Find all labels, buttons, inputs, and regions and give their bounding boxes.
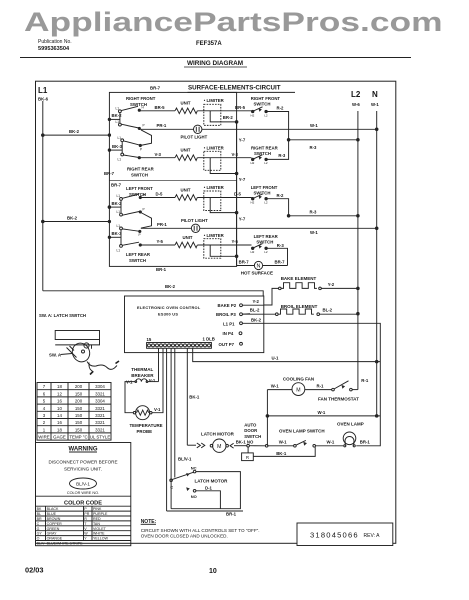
svg-text:BL/V: BL/V	[37, 542, 45, 546]
svg-text:SWITCH: SWITCH	[244, 434, 261, 439]
latch motor inner box	[196, 491, 221, 509]
svg-text:SWITCH: SWITCH	[254, 191, 271, 196]
wire BK-2 upper	[43, 134, 110, 136]
svg-text:18: 18	[57, 384, 62, 389]
wire BL/V-1	[178, 456, 192, 461]
thermostat fan	[332, 388, 335, 391]
pin OUT P7	[219, 342, 235, 347]
svg-text:D-1: D-1	[205, 485, 213, 490]
svg-text:HOT SURFACE: HOT SURFACE	[241, 271, 273, 276]
svg-text:P: P	[143, 208, 145, 212]
svg-text:WHITE: WHITE	[93, 532, 105, 536]
svg-text:BK-2: BK-2	[251, 318, 262, 323]
svg-text:BLUE/WHITE STRIPE: BLUE/WHITE STRIPE	[47, 542, 84, 546]
switch auto door	[244, 423, 261, 439]
svg-text:DOOR: DOOR	[244, 428, 258, 433]
svg-text:P: P	[143, 123, 145, 127]
svg-text:TAN: TAN	[93, 522, 100, 526]
svg-text:L2: L2	[264, 113, 268, 117]
svg-text:COLOR WIRE NO.: COLOR WIRE NO.	[67, 491, 99, 495]
svg-text:RIGHT FRONT: RIGHT FRONT	[251, 96, 281, 101]
pin BAKE P2	[218, 303, 237, 308]
svg-text:BR-7: BR-7	[150, 86, 161, 91]
svg-text:R-2: R-2	[277, 193, 285, 198]
svg-text:• LIMITER: • LIMITER	[204, 98, 225, 103]
svg-text:SERVICING UNIT.: SERVICING UNIT.	[64, 467, 102, 472]
svg-text:PINK: PINK	[93, 507, 102, 511]
svg-text:N: N	[372, 90, 378, 99]
resistor UNIT 1	[181, 101, 191, 106]
wire drop to thermal breaker	[158, 348, 160, 381]
svg-text:L1: L1	[117, 224, 121, 228]
svg-text:3321: 3321	[95, 427, 105, 432]
svg-text:TEMP °C: TEMP °C	[69, 435, 87, 440]
svg-text:3321: 3321	[95, 391, 105, 396]
svg-text:BR-7: BR-7	[104, 171, 115, 176]
contact NC auto door	[247, 447, 249, 453]
resistor UNIT 2	[181, 148, 191, 153]
wire limiter4 out	[210, 245, 236, 256]
wire gauge table	[37, 383, 111, 441]
svg-text:N: N	[257, 264, 261, 270]
wire W-1 mid oven	[267, 415, 380, 417]
node N	[371, 90, 379, 107]
pin BROIL P3	[216, 312, 236, 317]
svg-text:L1: L1	[117, 249, 121, 253]
svg-text:M: M	[217, 444, 221, 450]
svg-text:W-1: W-1	[310, 230, 318, 235]
svg-text:150: 150	[75, 427, 83, 432]
svg-text:BK-2: BK-2	[112, 201, 123, 206]
svg-text:PILOT LIGHT: PILOT LIGHT	[181, 218, 208, 223]
svg-text:L2: L2	[264, 201, 268, 205]
heater broil element	[281, 304, 318, 309]
resistor UNIT 3	[181, 187, 191, 192]
svg-text:C: C	[37, 522, 40, 526]
svg-text:W-1: W-1	[318, 410, 326, 415]
svg-text:L1: L1	[117, 194, 121, 198]
svg-text:200: 200	[75, 399, 83, 404]
svg-text:M: M	[296, 387, 300, 393]
svg-text:BR-7: BR-7	[111, 183, 122, 188]
svg-text:BLACK: BLACK	[47, 507, 59, 511]
svg-text:TEMPERATURE: TEMPERATURE	[130, 423, 163, 428]
wire R-3 lower	[289, 215, 358, 217]
svg-text:1 DLB: 1 DLB	[203, 337, 215, 342]
svg-text:L2: L2	[264, 250, 268, 254]
svg-text:GREEN: GREEN	[47, 527, 60, 531]
svg-text:BR-1: BR-1	[360, 440, 371, 445]
svg-text:R-2: R-2	[277, 106, 285, 111]
part number box	[297, 523, 393, 546]
latch switch assembly drawing	[39, 313, 86, 318]
svg-text:BAKE ELEMENT: BAKE ELEMENT	[281, 276, 317, 281]
svg-text:R-3: R-3	[310, 145, 318, 150]
svg-text:BROWN: BROWN	[47, 517, 61, 521]
svg-text:R-3: R-3	[310, 210, 318, 215]
svg-text:UNIT: UNIT	[183, 235, 193, 240]
svg-text:150: 150	[75, 413, 83, 418]
svg-text:BK-1: BK-1	[189, 395, 200, 400]
footer date	[25, 566, 44, 575]
svg-text:SWITCH: SWITCH	[256, 239, 273, 244]
svg-text:14: 14	[57, 413, 62, 418]
svg-text:ELECTRONIC OVEN CONTROL: ELECTRONIC OVEN CONTROL	[137, 305, 201, 310]
svg-text:LEFT REAR: LEFT REAR	[254, 234, 279, 239]
svg-text:ORANGE: ORANGE	[47, 537, 63, 541]
svg-text:UNIT: UNIT	[181, 148, 191, 153]
lamp hot surface indicator	[237, 265, 255, 267]
svg-text:P: P	[139, 233, 141, 237]
svg-text:LEFT FRONT: LEFT FRONT	[126, 186, 153, 191]
wire V-3	[139, 157, 175, 159]
svg-text:W-1: W-1	[271, 384, 279, 389]
svg-text:3321: 3321	[95, 420, 105, 425]
svg-text:200: 200	[75, 384, 83, 389]
svg-text:10: 10	[209, 568, 217, 575]
svg-text:IN P4: IN P4	[223, 331, 234, 336]
svg-text:Y-7: Y-7	[239, 217, 246, 222]
svg-text:LATCH MOTOR: LATCH MOTOR	[201, 431, 235, 436]
svg-text:L1: L1	[116, 107, 120, 111]
svg-text:VIOLET: VIOLET	[93, 527, 107, 531]
svg-text:Y-2: Y-2	[328, 282, 335, 287]
svg-text:AppliancePartsPros.com: AppliancePartsPros.com	[24, 7, 443, 37]
svg-text:• LIMITER: • LIMITER	[204, 145, 225, 150]
svg-text:BK-3: BK-3	[112, 144, 123, 149]
svg-text:R-1: R-1	[361, 378, 369, 383]
title WIRING DIAGRAM	[187, 60, 243, 67]
wire P zigzag bank2	[122, 212, 139, 216]
svg-text:3304: 3304	[95, 384, 105, 389]
svg-text:12: 12	[57, 391, 62, 396]
lamp pilot light 1	[194, 125, 202, 133]
connector strip P1-P15	[147, 337, 215, 343]
wire BK-2 bottom bus	[43, 291, 263, 296]
svg-text:SURFACE-ELEMENTS-CIRCUIT: SURFACE-ELEMENTS-CIRCUIT	[188, 85, 281, 92]
wire PR-1 pilot feed	[121, 124, 138, 128]
svg-text:BROIL P3: BROIL P3	[216, 312, 236, 317]
switch latch motor lower	[191, 465, 197, 470]
limiter 4	[204, 233, 225, 238]
wire R-3 upper	[289, 139, 358, 141]
switch SW right-front (right unit)	[251, 96, 281, 107]
svg-text:7: 7	[43, 384, 46, 389]
svg-text:LEFT FRONT: LEFT FRONT	[251, 185, 278, 190]
svg-text:Y-2: Y-2	[253, 299, 260, 304]
wire BR-2	[210, 111, 236, 122]
svg-text:W-1: W-1	[279, 440, 287, 445]
svg-text:10: 10	[57, 406, 62, 411]
svg-text:R: R	[84, 517, 87, 521]
svg-text:W-1: W-1	[310, 123, 318, 128]
lamp oven lamp	[337, 422, 364, 427]
svg-text:Y-7: Y-7	[239, 177, 246, 182]
bus L2	[357, 111, 359, 390]
svg-text:Publication No.: Publication No.	[38, 39, 72, 45]
svg-text:BK-6: BK-6	[38, 97, 49, 102]
svg-text:L1: L1	[118, 136, 122, 140]
switch SW right-rear (right unit)	[251, 146, 279, 157]
svg-text:PR-1: PR-1	[157, 222, 167, 227]
switch SW right-front (left bank)	[126, 96, 156, 107]
svg-text:WIRING DIAGRAM: WIRING DIAGRAM	[187, 60, 243, 67]
svg-text:BR-2: BR-2	[223, 115, 234, 120]
svg-text:C: C	[170, 485, 173, 490]
surface switch box	[109, 92, 236, 266]
svg-text:3: 3	[43, 413, 46, 418]
svg-text:16: 16	[57, 420, 62, 425]
logo AppliancePartsPros.com	[24, 7, 443, 37]
title SURFACE-ELEMENTS-CIRCUIT	[188, 85, 281, 92]
svg-text:H2: H2	[251, 201, 255, 205]
svg-text:3304: 3304	[95, 399, 105, 404]
svg-text:BK-2: BK-2	[67, 215, 78, 220]
svg-text:DISCONNECT POWER BEFORE: DISCONNECT POWER BEFORE	[48, 460, 117, 465]
wire BR-5	[139, 110, 175, 112]
switch oven lamp	[279, 428, 325, 433]
wire W-1 pilot1 to N	[202, 128, 377, 130]
svg-text:BAKE P2: BAKE P2	[218, 303, 237, 308]
heater bake element	[281, 276, 317, 281]
switch SW left-rear (right unit)	[254, 234, 279, 245]
svg-text:V-3: V-3	[155, 152, 162, 157]
svg-text:6: 6	[43, 391, 46, 396]
svg-text:4: 4	[43, 406, 46, 411]
wire L1-P1 BK-2 feed to oven circuit	[242, 323, 380, 446]
svg-text:P: P	[84, 507, 87, 511]
header rule	[20, 57, 411, 59]
svg-text:PR: PR	[84, 512, 89, 516]
svg-text:O: O	[37, 537, 40, 541]
pin L1 P1	[223, 322, 235, 327]
svg-text:BR-5: BR-5	[235, 105, 246, 110]
svg-text:SWITCH: SWITCH	[129, 258, 146, 263]
svg-text:BL-2: BL-2	[250, 308, 260, 313]
wire D-5	[140, 197, 175, 199]
svg-text:UNIT: UNIT	[181, 187, 191, 192]
thermal breaker	[131, 367, 154, 378]
warning box	[36, 443, 131, 546]
svg-text:02/03: 02/03	[25, 566, 44, 575]
model number	[196, 41, 222, 47]
switch SW right-rear (left bank)	[127, 166, 155, 177]
latch motor outer box	[171, 472, 240, 509]
svg-text:V: V	[84, 527, 87, 531]
svg-text:SWITCH: SWITCH	[130, 102, 147, 107]
svg-text:YELLOW: YELLOW	[93, 537, 109, 541]
svg-text:L1: L1	[117, 210, 121, 214]
svg-text:BK-1 NO: BK-1 NO	[236, 440, 254, 445]
node L1	[38, 86, 49, 102]
svg-text:COLOR CODE: COLOR CODE	[64, 501, 102, 507]
svg-text:GRAY: GRAY	[47, 532, 58, 536]
bus N	[376, 111, 378, 416]
wire Y-2 to control	[264, 288, 279, 305]
svg-text:NO: NO	[191, 494, 197, 499]
svg-text:Y-5: Y-5	[157, 239, 164, 244]
svg-text:G: G	[37, 527, 40, 531]
footer page number	[209, 568, 217, 575]
svg-text:H2: H2	[251, 161, 255, 165]
svg-text:BR-5: BR-5	[155, 105, 166, 110]
wire limiter2 out	[210, 158, 236, 174]
svg-text:R-1: R-1	[317, 384, 325, 389]
svg-text:W-6: W-6	[352, 102, 360, 107]
svg-text:SW. A: LATCH SWITCH: SW. A: LATCH SWITCH	[39, 313, 86, 318]
svg-text:LATCH MOTOR: LATCH MOTOR	[195, 478, 229, 483]
color code table	[64, 501, 102, 507]
switch SW left-rear (left bank)	[126, 252, 151, 263]
svg-text:GAGE: GAGE	[53, 435, 66, 440]
svg-text:BK-2: BK-2	[165, 284, 176, 289]
svg-text:BK-2: BK-2	[69, 129, 80, 134]
svg-text:OVEN LAMP: OVEN LAMP	[337, 422, 364, 427]
svg-text:L1: L1	[116, 120, 120, 124]
svg-text:L1 P1: L1 P1	[223, 322, 235, 327]
svg-text:RIGHT FRONT: RIGHT FRONT	[126, 96, 156, 101]
svg-text:OVEN LAMP SWITCH: OVEN LAMP SWITCH	[279, 428, 325, 433]
svg-text:15: 15	[147, 337, 152, 342]
svg-text:H2: H2	[251, 250, 255, 254]
svg-text:BR-7: BR-7	[275, 259, 286, 264]
svg-text:SWITCH: SWITCH	[254, 102, 271, 107]
wire L1 vertical bus	[42, 101, 44, 291]
wire Y-5	[140, 244, 175, 246]
svg-text:BR-1: BR-1	[156, 267, 167, 272]
wire divider BR-7	[109, 180, 236, 182]
wire probe to connector	[152, 348, 163, 412]
svg-text:OVEN DOOR CLOSED AND UNLOCKED.: OVEN DOOR CLOSED AND UNLOCKED.	[141, 534, 228, 539]
wire BK-1 NC to lamp switch	[253, 447, 315, 456]
lamp pilot light 2	[181, 218, 208, 223]
svg-text:150: 150	[75, 406, 83, 411]
limiter 2	[204, 145, 225, 150]
wire BR-1 bottom	[167, 510, 243, 512]
svg-text:FEF357A: FEF357A	[196, 41, 222, 47]
motor latch upper	[201, 431, 235, 436]
publication number	[38, 39, 72, 52]
svg-text:COOLING FAN: COOLING FAN	[283, 376, 314, 381]
svg-text:T: T	[84, 522, 87, 526]
svg-text:PROBE: PROBE	[137, 429, 153, 434]
svg-text:ES300 US: ES300 US	[158, 312, 178, 317]
svg-text:OUT P7: OUT P7	[219, 342, 235, 347]
wire V-1 breaker to probe	[125, 382, 135, 413]
wire BL-2 to control	[242, 313, 275, 315]
svg-text:318045066: 318045066	[310, 531, 359, 540]
wire BK-2 lower	[43, 221, 110, 223]
wire PR-1 pilot2 feed	[120, 227, 123, 230]
limiter 1	[204, 98, 225, 103]
control board ELECTRONIC OVEN CONTROL	[125, 296, 264, 353]
svg-text:BK: BK	[37, 507, 42, 511]
svg-text:COPPER: COPPER	[47, 522, 63, 526]
svg-text:R-3: R-3	[278, 153, 286, 158]
wire limiter3 out	[210, 198, 236, 213]
wire BK-1 drop	[186, 348, 188, 445]
svg-text:U-1: U-1	[272, 355, 280, 360]
svg-text:BR-1: BR-1	[226, 512, 237, 517]
svg-text:PURPLE: PURPLE	[93, 512, 108, 516]
svg-text:18: 18	[57, 427, 62, 432]
svg-text:D-5: D-5	[234, 192, 242, 197]
svg-text:GY: GY	[37, 532, 43, 536]
svg-text:R: R	[246, 455, 249, 460]
svg-text:WIRE: WIRE	[38, 435, 50, 440]
svg-text:PILOT LIGHT: PILOT LIGHT	[181, 135, 208, 140]
svg-text:BK-2: BK-2	[112, 113, 123, 118]
svg-text:1: 1	[43, 427, 46, 432]
svg-text:• LIMITER: • LIMITER	[204, 233, 225, 238]
note	[141, 519, 157, 525]
svg-text:RED: RED	[93, 517, 101, 521]
temperature probe	[136, 406, 150, 420]
svg-text:THERMAL: THERMAL	[131, 367, 153, 372]
svg-text:L2: L2	[351, 90, 361, 99]
svg-text:CIRCUIT SHOWN WITH ALL CONTROL: CIRCUIT SHOWN WITH ALL CONTROLS SET TO "…	[141, 528, 260, 533]
svg-text:BLUE: BLUE	[47, 512, 57, 516]
svg-text:W-1: W-1	[327, 440, 335, 445]
svg-text:L1: L1	[38, 86, 48, 95]
pin IN P4	[223, 331, 234, 336]
wire BR-7 top label	[150, 86, 161, 91]
svg-text:BL/V-1: BL/V-1	[178, 456, 192, 461]
svg-text:L1: L1	[118, 158, 122, 162]
svg-text:W-1: W-1	[371, 102, 379, 107]
svg-text:3321: 3321	[95, 413, 105, 418]
svg-text:H2: H2	[251, 113, 255, 117]
svg-text:LEFT REAR: LEFT REAR	[126, 252, 151, 257]
svg-text:BROIL ELEMENT: BROIL ELEMENT	[281, 304, 318, 309]
svg-text:3321: 3321	[95, 406, 105, 411]
resistor UNIT 4	[183, 235, 193, 240]
svg-text:SW. A: SW. A	[49, 353, 61, 358]
switch SW left-front (left bank)	[126, 186, 153, 197]
svg-text:BL: BL	[37, 512, 41, 516]
svg-text:PR-1: PR-1	[157, 123, 167, 128]
svg-text:16: 16	[57, 399, 62, 404]
switch SW left-front (right unit)	[251, 185, 278, 196]
svg-text:V-1: V-1	[154, 407, 161, 412]
svg-text:SWITCH: SWITCH	[254, 151, 271, 156]
svg-text:5995363504: 5995363504	[38, 46, 70, 52]
svg-text:Y: Y	[84, 537, 87, 541]
svg-text:FAN THERMOSTAT: FAN THERMOSTAT	[318, 396, 359, 401]
svg-text:D-5: D-5	[156, 192, 164, 197]
svg-text:REV: A: REV: A	[364, 533, 381, 539]
svg-text:SWITCH: SWITCH	[131, 172, 148, 177]
svg-text:UL STYLE: UL STYLE	[90, 435, 111, 440]
svg-text:Y-7: Y-7	[239, 138, 246, 143]
svg-text:RIGHT REAR: RIGHT REAR	[127, 166, 155, 171]
wire P zigzag to rear switch	[141, 130, 152, 146]
svg-text:RIGHT REAR: RIGHT REAR	[251, 146, 279, 151]
svg-text:R-3: R-3	[277, 243, 285, 248]
wire U-1 drop and top oven wire	[193, 348, 381, 361]
svg-text:5: 5	[43, 399, 46, 404]
svg-text:V-3: V-3	[232, 152, 239, 157]
svg-text:NC: NC	[191, 465, 197, 470]
wire W-1 pilot2 to N	[200, 227, 377, 229]
svg-text:BR-7: BR-7	[239, 260, 250, 265]
svg-text:BR: BR	[37, 517, 42, 521]
svg-text:AUTO: AUTO	[244, 423, 257, 428]
svg-text:• LIMITER: • LIMITER	[204, 185, 225, 190]
svg-text:P: P	[140, 148, 142, 152]
node L2	[351, 90, 361, 107]
svg-text:BL-2: BL-2	[323, 307, 333, 312]
